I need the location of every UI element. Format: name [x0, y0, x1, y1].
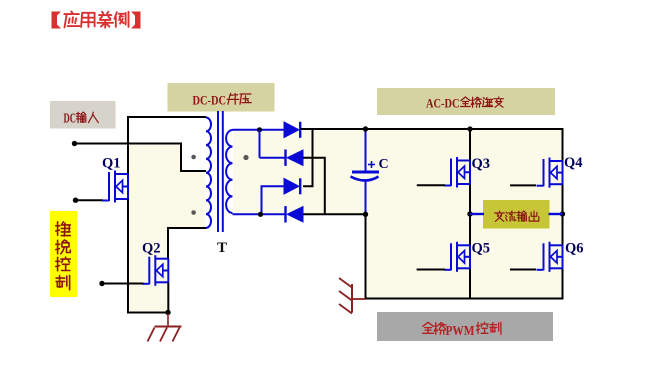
- title 【应用举例】: [52, 12, 141, 29]
- svg-text:DC-DC: DC-DC: [193, 93, 227, 108]
- phase dot primary lower: [191, 210, 196, 215]
- svg-text:Q6: Q6: [565, 241, 584, 257]
- svg-text:DC: DC: [64, 111, 77, 126]
- wire: node A vertical to D2: [259, 130, 261, 158]
- wire: Q5 gate lead: [417, 269, 445, 271]
- wire: secondary bottom lead / node B: [233, 213, 286, 215]
- diode D2: [286, 150, 304, 166]
- wire: primary top lead: [128, 116, 206, 118]
- transistor Q3: [444, 157, 470, 188]
- wire: negative line D4 anode to cap bottom: [303, 213, 366, 215]
- wire: bottom rail left: [127, 312, 168, 314]
- wire: top rail (rectifier + to inverter): [301, 128, 563, 130]
- transistor Q2: [142, 255, 168, 286]
- phase dot primary upper: [191, 155, 196, 160]
- transformer T core lines: [217, 111, 219, 232]
- node: cap bottom junction: [363, 212, 368, 217]
- transistor Q4: [537, 158, 563, 188]
- node: AC out left junction: [467, 211, 472, 216]
- label box DC输入: [50, 101, 116, 129]
- wire: input terminal 2 to Q1 gate: [76, 199, 104, 201]
- wire: Q4 gate lead: [510, 184, 536, 186]
- label box 全桥PWM控制: [377, 312, 553, 341]
- transformer T primary winding: [206, 118, 211, 228]
- wire: Q6 gate lead: [510, 269, 536, 271]
- transistor Q5: [444, 242, 470, 272]
- node: cap top junction: [363, 126, 368, 131]
- svg-text:T: T: [217, 240, 227, 256]
- wire: AC out left: [470, 213, 484, 215]
- wire: D2 anode to negative vertical: [303, 158, 325, 215]
- wire: Q3 gate lead: [417, 184, 445, 186]
- svg-text:Q1: Q1: [102, 156, 121, 172]
- wire: left leg segments: [469, 129, 471, 161]
- node: top rail left leg junction: [467, 126, 472, 131]
- transistor Q6: [537, 242, 563, 272]
- node: bottom rail ground junction: [165, 310, 170, 315]
- svg-text:C: C: [379, 157, 389, 172]
- capacitor C: [351, 129, 380, 214]
- wire: primary bottom lead to Q2 drain: [168, 228, 206, 259]
- wire: Q1 source down left rail: [127, 199, 129, 314]
- wire: inverter bottom rail: [365, 298, 563, 300]
- wire: D3 anode lead and vertical to node B: [262, 186, 285, 214]
- wire: DC input + to primary center tap: [75, 144, 207, 172]
- cream fill: push-pull loop interior: [129, 145, 205, 311]
- svg-text:Q2: Q2: [142, 241, 161, 257]
- diode D3: [284, 178, 300, 194]
- svg-text:Q4: Q4: [564, 155, 583, 171]
- wire: secondary top lead / node A: [233, 129, 285, 131]
- wire: right leg segments: [562, 128, 564, 161]
- label box AC-DC全桥逆变: [377, 88, 555, 115]
- wire: D2 cathode lead: [260, 157, 286, 159]
- cream fill: inverter bridge interior: [366, 130, 562, 298]
- wire: left vertical upper (primary top to Q1 drain): [127, 116, 129, 175]
- wire: AC out right: [549, 213, 563, 215]
- ground (push-pull): [148, 314, 182, 342]
- svg-text:Q3: Q3: [472, 156, 491, 172]
- wire: Q2 source down: [167, 282, 169, 313]
- node: DC input + terminal: [72, 141, 77, 146]
- label box 交流输出: [483, 200, 550, 229]
- svg-text:Q5: Q5: [472, 241, 491, 257]
- wire: cap bottom down to inverter bottom rail: [365, 214, 367, 299]
- phase dot secondary: [243, 155, 248, 160]
- diode D4: [286, 206, 304, 222]
- cream fill: rectifier block interior: [233, 131, 365, 214]
- node: DC input terminal 2: [73, 198, 78, 203]
- transformer T secondary winding: [226, 130, 232, 213]
- node B junction dot: [258, 212, 263, 217]
- label box 推挽控制 (vertical): [50, 211, 77, 297]
- node: Q2 gate terminal: [99, 281, 104, 286]
- label box DC-DC升压: [168, 83, 275, 112]
- svg-text:PWM: PWM: [446, 323, 475, 338]
- svg-text:AC-DC: AC-DC: [426, 97, 460, 111]
- wire: vertical from top rail to D3 cathode: [303, 129, 313, 186]
- wire: Q2 gate lead: [102, 283, 144, 285]
- transistor Q1: [102, 171, 128, 203]
- ground (inverter, rotated): [339, 278, 366, 314]
- node: AC out right junction: [560, 211, 565, 216]
- node A junction dot: [257, 127, 262, 132]
- diode D1: [284, 122, 300, 138]
